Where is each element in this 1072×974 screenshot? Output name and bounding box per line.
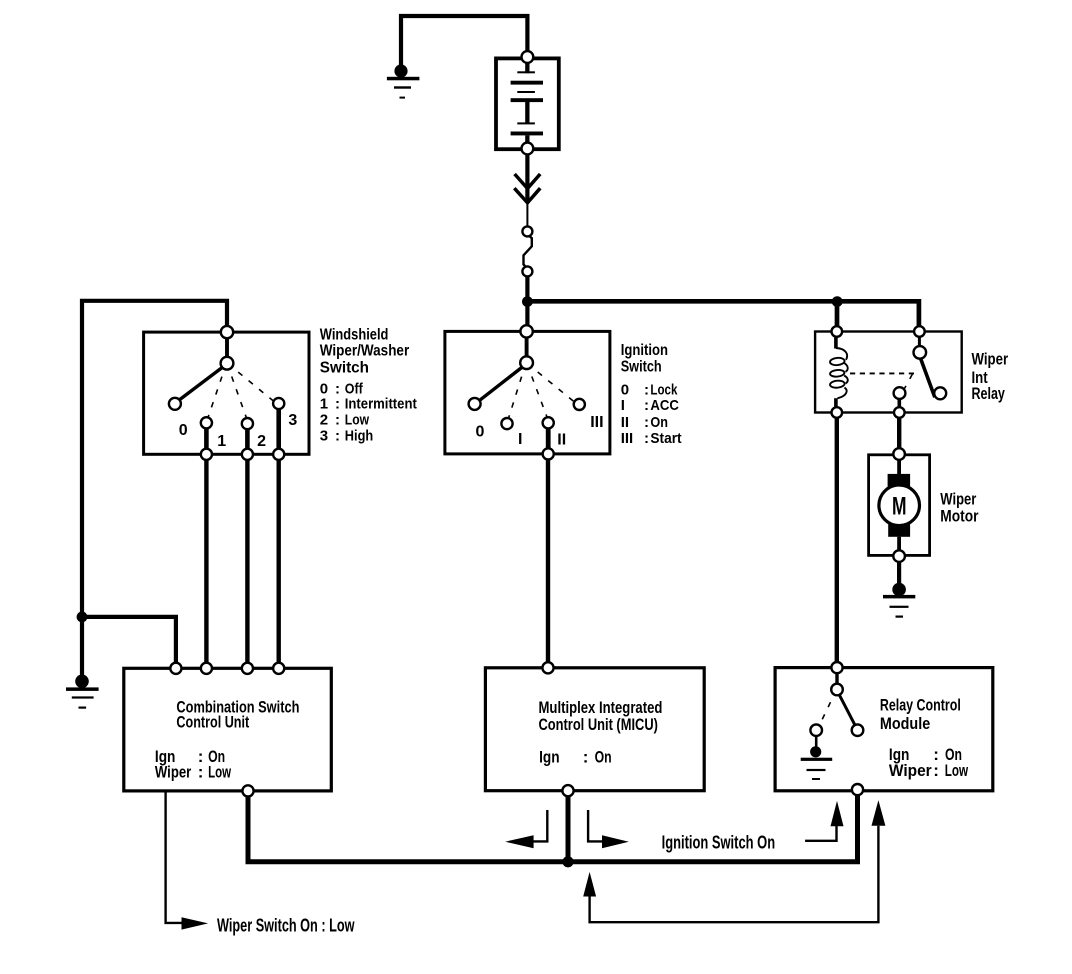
svg-text:Intermittent: Intermittent — [345, 396, 417, 413]
U3 switch arm — [839, 695, 855, 726]
wire ground rail to CSCU — [82, 617, 176, 663]
svg-text:1: 1 — [217, 433, 226, 450]
connector chevron arrows — [514, 174, 540, 203]
M1 terminal bottom — [893, 550, 905, 562]
U1 name label — [176, 697, 299, 731]
svg-text:Wiper: Wiper — [940, 489, 976, 508]
svg-text::: : — [335, 396, 340, 413]
wire U1 to wiper-switch-on note — [166, 792, 186, 923]
S1 legend 1 Intermittent — [320, 396, 417, 413]
svg-text:0: 0 — [476, 423, 485, 440]
K1 switch arm — [921, 359, 935, 398]
wire K1 coil to RCM — [835, 418, 839, 663]
S1 legend 2 Low — [320, 412, 369, 429]
svg-text::: : — [583, 748, 589, 767]
S2 legend III Start — [621, 430, 682, 447]
wire battery positive to ground — [401, 16, 527, 65]
wire fuse to ignition switch — [525, 276, 529, 331]
S2 terminal bottom — [543, 448, 554, 459]
U2 state Ign On — [539, 748, 612, 767]
combination switch control unit U1 box — [124, 668, 331, 791]
svg-text:Control Unit (MICU): Control Unit (MICU) — [539, 715, 658, 734]
S1 contact 3 — [273, 398, 284, 409]
U3 grounded contact — [810, 724, 822, 736]
windshield wiper/washer switch S1 box — [144, 332, 309, 454]
svg-text:Wiper/Washer: Wiper/Washer — [320, 342, 409, 359]
svg-text:Ignition Switch On: Ignition Switch On — [662, 832, 776, 852]
svg-text::: : — [198, 763, 204, 782]
svg-text:2: 2 — [257, 433, 266, 450]
S2 contact I — [501, 418, 512, 429]
S1 dashed throw to 1 — [208, 369, 225, 418]
svg-text:0: 0 — [179, 422, 188, 439]
S1 name label — [320, 326, 409, 376]
svg-text:Switch: Switch — [320, 359, 369, 376]
svg-text:3: 3 — [288, 412, 297, 429]
U3 switch stem — [835, 673, 838, 684]
svg-text:2: 2 — [320, 412, 328, 429]
signal arrow into U3 — [805, 801, 843, 841]
svg-text:On: On — [595, 748, 612, 767]
U3 ground stem — [815, 736, 818, 748]
S2 terminal top — [520, 325, 532, 337]
K1 common contact — [894, 387, 906, 399]
M1 stem top — [897, 459, 901, 475]
svg-text:III: III — [590, 414, 603, 431]
wiper int relay K1 box — [815, 332, 962, 413]
ground G2 (motor) — [883, 583, 915, 618]
wiper motor M1 box — [869, 455, 930, 556]
svg-text:Relay Control: Relay Control — [880, 696, 961, 715]
svg-text::: : — [644, 397, 649, 414]
K1 dashed throw — [905, 367, 917, 389]
S2 contact II stem — [546, 428, 551, 448]
fuse F1 terminal top — [522, 226, 532, 236]
U3 dashed throw — [820, 695, 835, 725]
S2 contact 0 — [469, 398, 481, 410]
M1 motor circle — [879, 485, 920, 526]
multiplex integrated control unit U2 box — [485, 668, 704, 791]
S1 wiper arm — [179, 367, 224, 401]
svg-text:Wiper: Wiper — [972, 350, 1009, 369]
M1 brush bottom — [888, 524, 910, 537]
K1 NO contact — [934, 387, 946, 399]
signal arrow right (U2 output) — [588, 810, 629, 848]
S2 pivot — [520, 356, 533, 369]
K1 terminal coil bottom — [832, 407, 843, 418]
K1 terminal switch top — [914, 326, 925, 337]
svg-text:High: High — [345, 428, 373, 445]
S2 dashed throw to II — [529, 369, 547, 417]
U3 NO contact — [852, 724, 864, 736]
S2 name label — [621, 342, 668, 375]
S1 legend 0 Off — [320, 380, 364, 397]
S1 stem — [225, 338, 229, 357]
S1 contact 0 — [169, 398, 181, 410]
S1 dashed throw to 3 — [232, 367, 274, 402]
K1 switch stem — [918, 337, 921, 348]
svg-text:Lock: Lock — [650, 381, 678, 398]
svg-text:Ignition: Ignition — [621, 342, 668, 359]
M1 name label — [940, 489, 979, 525]
node junction D (bus) — [562, 856, 573, 867]
U1 state Wiper Low — [155, 763, 232, 782]
U3 state Wiper Low — [889, 761, 969, 780]
svg-text::: : — [644, 414, 649, 431]
svg-text:ACC: ACC — [650, 397, 679, 414]
S2 legend I ACC — [621, 397, 679, 414]
U1 state Ign On — [155, 747, 225, 766]
svg-text:III: III — [621, 430, 634, 447]
fuse F1 body — [524, 236, 532, 267]
S2 legend II On — [621, 414, 668, 431]
fuse F1 terminal bottom — [522, 266, 532, 276]
svg-text:Wiper Switch On : Low: Wiper Switch On : Low — [217, 915, 355, 935]
wire U1 bottom bus to U3 — [248, 795, 858, 862]
wire battery to fuse — [525, 154, 529, 203]
S1 terminal bottom 2 — [242, 449, 253, 460]
svg-text:II: II — [621, 414, 629, 431]
S1 terminal top — [221, 326, 233, 338]
K1 dashed actuation link — [850, 372, 914, 374]
S1 legend 3 High — [320, 428, 373, 445]
ground G1 (battery) — [387, 64, 420, 98]
U1 terminal top 1 — [170, 663, 181, 674]
svg-text:1: 1 — [320, 396, 328, 413]
U2 terminal top — [542, 662, 553, 673]
node junction A — [522, 296, 533, 307]
node junction C (ground rail) — [77, 612, 88, 623]
S1 contact 2 — [242, 418, 253, 429]
svg-text::: : — [644, 381, 649, 398]
U3 switch pivot — [831, 684, 843, 696]
S2 contact II — [543, 417, 554, 428]
wire bus to relay coil — [835, 301, 840, 331]
wire S1-2 to CSCU — [245, 460, 249, 663]
ignition switch S2 box — [445, 331, 610, 454]
S1 terminal bottom 3 — [273, 449, 284, 460]
K1 coil — [830, 337, 848, 408]
K1 common contact stem — [897, 399, 901, 408]
signal arrow left (U2 output) — [505, 810, 547, 848]
wire main bus — [527, 301, 919, 331]
U3 state Ign On — [889, 745, 962, 764]
signal loop bus to U3 — [583, 800, 885, 922]
svg-text:I: I — [518, 431, 522, 448]
U3 terminal top — [831, 662, 842, 673]
S1 dashed throw to 2 — [229, 369, 247, 418]
U2 name label — [539, 698, 663, 734]
svg-text::: : — [644, 430, 649, 447]
svg-text:Windshield: Windshield — [320, 326, 389, 343]
K1 switch pivot — [914, 346, 927, 359]
battery box — [496, 58, 559, 149]
wire K1 common to motor — [897, 418, 901, 448]
svg-text:Control Unit: Control Unit — [176, 712, 249, 731]
S1 contact stems — [206, 409, 278, 449]
battery terminal top — [522, 51, 534, 63]
svg-text:Low: Low — [945, 761, 969, 780]
U3 terminal bottom — [852, 784, 863, 795]
S1 pivot — [221, 357, 234, 370]
S2 contact III — [574, 399, 585, 410]
svg-text:II: II — [557, 432, 566, 449]
K1 terminal coil top — [832, 326, 843, 337]
svg-text:Module: Module — [880, 714, 930, 733]
svg-text:M: M — [892, 492, 907, 520]
S2 dashed throw to III — [532, 367, 575, 402]
wire S1-1 to CSCU — [204, 460, 208, 663]
M1 brush top — [888, 474, 911, 487]
S2 dashed throw to I — [509, 369, 525, 418]
ground G4 (RCM) — [801, 746, 833, 780]
svg-text:3: 3 — [320, 428, 328, 445]
battery terminal bottom — [522, 143, 534, 155]
U1 terminal top 2 — [201, 663, 212, 674]
U1 terminal top 4 — [273, 663, 284, 674]
U1 terminal bottom — [242, 785, 253, 796]
svg-text:I: I — [621, 397, 625, 414]
S2 legend 0 Lock — [621, 381, 678, 398]
wire S2 to MICU — [546, 460, 550, 663]
M1 terminal top — [893, 448, 905, 460]
wire U2 drop to bus — [566, 796, 571, 862]
svg-text:Wiper: Wiper — [155, 763, 192, 782]
svg-text:Wiper: Wiper — [889, 761, 932, 780]
svg-text::: : — [933, 761, 939, 780]
K1 terminal common bottom — [894, 407, 905, 418]
K1 name label — [972, 350, 1009, 404]
svg-text:Relay: Relay — [972, 384, 1006, 403]
wire wiper switch feed to left ground rail — [82, 301, 227, 675]
svg-text::: : — [335, 428, 340, 445]
svg-text::: : — [335, 412, 340, 429]
svg-text:Low: Low — [345, 412, 369, 429]
svg-text:0: 0 — [621, 381, 629, 398]
svg-text:Low: Low — [208, 763, 232, 782]
wire chevron to fuse — [526, 203, 528, 227]
node junction B — [832, 296, 843, 307]
battery cell plates — [511, 64, 543, 145]
svg-text:Ign: Ign — [539, 748, 560, 767]
wire S1-3 to CSCU — [277, 460, 281, 663]
ground G3 (left rail) — [66, 675, 99, 709]
wire M1 to ground — [897, 562, 901, 584]
U3 name label — [880, 696, 961, 733]
svg-text:On: On — [650, 414, 668, 431]
svg-text:Start: Start — [650, 430, 681, 447]
relay control module U3 box — [775, 668, 993, 791]
arrowhead wiper switch on — [182, 917, 209, 929]
S1 contact 1 — [201, 417, 212, 428]
S2 stem — [525, 338, 529, 357]
M1 stem bottom — [897, 537, 901, 551]
S2 wiper arm — [479, 367, 523, 401]
S1 terminal bottom 1 — [201, 449, 212, 460]
U2 terminal bottom — [562, 785, 573, 796]
svg-text:Motor: Motor — [940, 507, 979, 526]
svg-text:Switch: Switch — [621, 358, 662, 375]
U1 terminal top 3 — [242, 663, 253, 674]
